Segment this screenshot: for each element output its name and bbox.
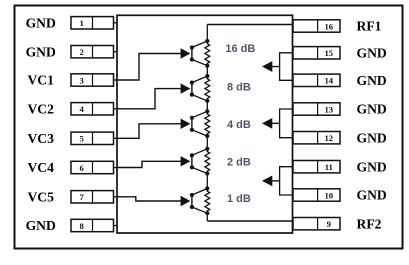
svg-text:15: 15 [325,48,334,58]
svg-text:8: 8 [80,221,85,231]
svg-text:2 dB: 2 dB [227,157,251,169]
svg-text:GND: GND [26,218,56,233]
svg-text:GND: GND [357,46,387,61]
svg-text:4 dB: 4 dB [227,119,251,131]
svg-text:GND: GND [357,130,387,145]
svg-text:RF2: RF2 [357,216,382,231]
svg-text:RF1: RF1 [357,19,382,34]
svg-text:16: 16 [325,21,334,31]
svg-text:GND: GND [357,188,387,203]
svg-text:VC2: VC2 [27,102,54,117]
svg-text:VC4: VC4 [27,160,54,175]
svg-text:10: 10 [325,190,334,200]
svg-text:5: 5 [80,134,84,144]
svg-text:11: 11 [325,162,333,172]
svg-text:4: 4 [80,104,85,114]
svg-text:1: 1 [80,18,84,28]
svg-text:GND: GND [357,159,387,174]
svg-text:7: 7 [80,192,85,202]
svg-text:13: 13 [325,104,334,114]
svg-text:12: 12 [325,133,334,143]
svg-text:9: 9 [327,219,331,229]
svg-text:VC1: VC1 [27,73,54,88]
svg-text:VC3: VC3 [27,131,54,146]
svg-text:VC5: VC5 [27,190,54,205]
svg-text:3: 3 [80,75,84,85]
svg-text:1 dB: 1 dB [227,193,251,205]
svg-text:GND: GND [26,44,56,59]
svg-text:6: 6 [80,163,85,173]
svg-text:GND: GND [26,16,56,31]
svg-text:GND: GND [357,102,387,117]
svg-text:GND: GND [357,73,387,88]
svg-text:2: 2 [80,47,84,57]
svg-text:8 dB: 8 dB [227,82,251,94]
svg-text:14: 14 [325,76,334,86]
svg-text:16 dB: 16 dB [225,43,255,55]
